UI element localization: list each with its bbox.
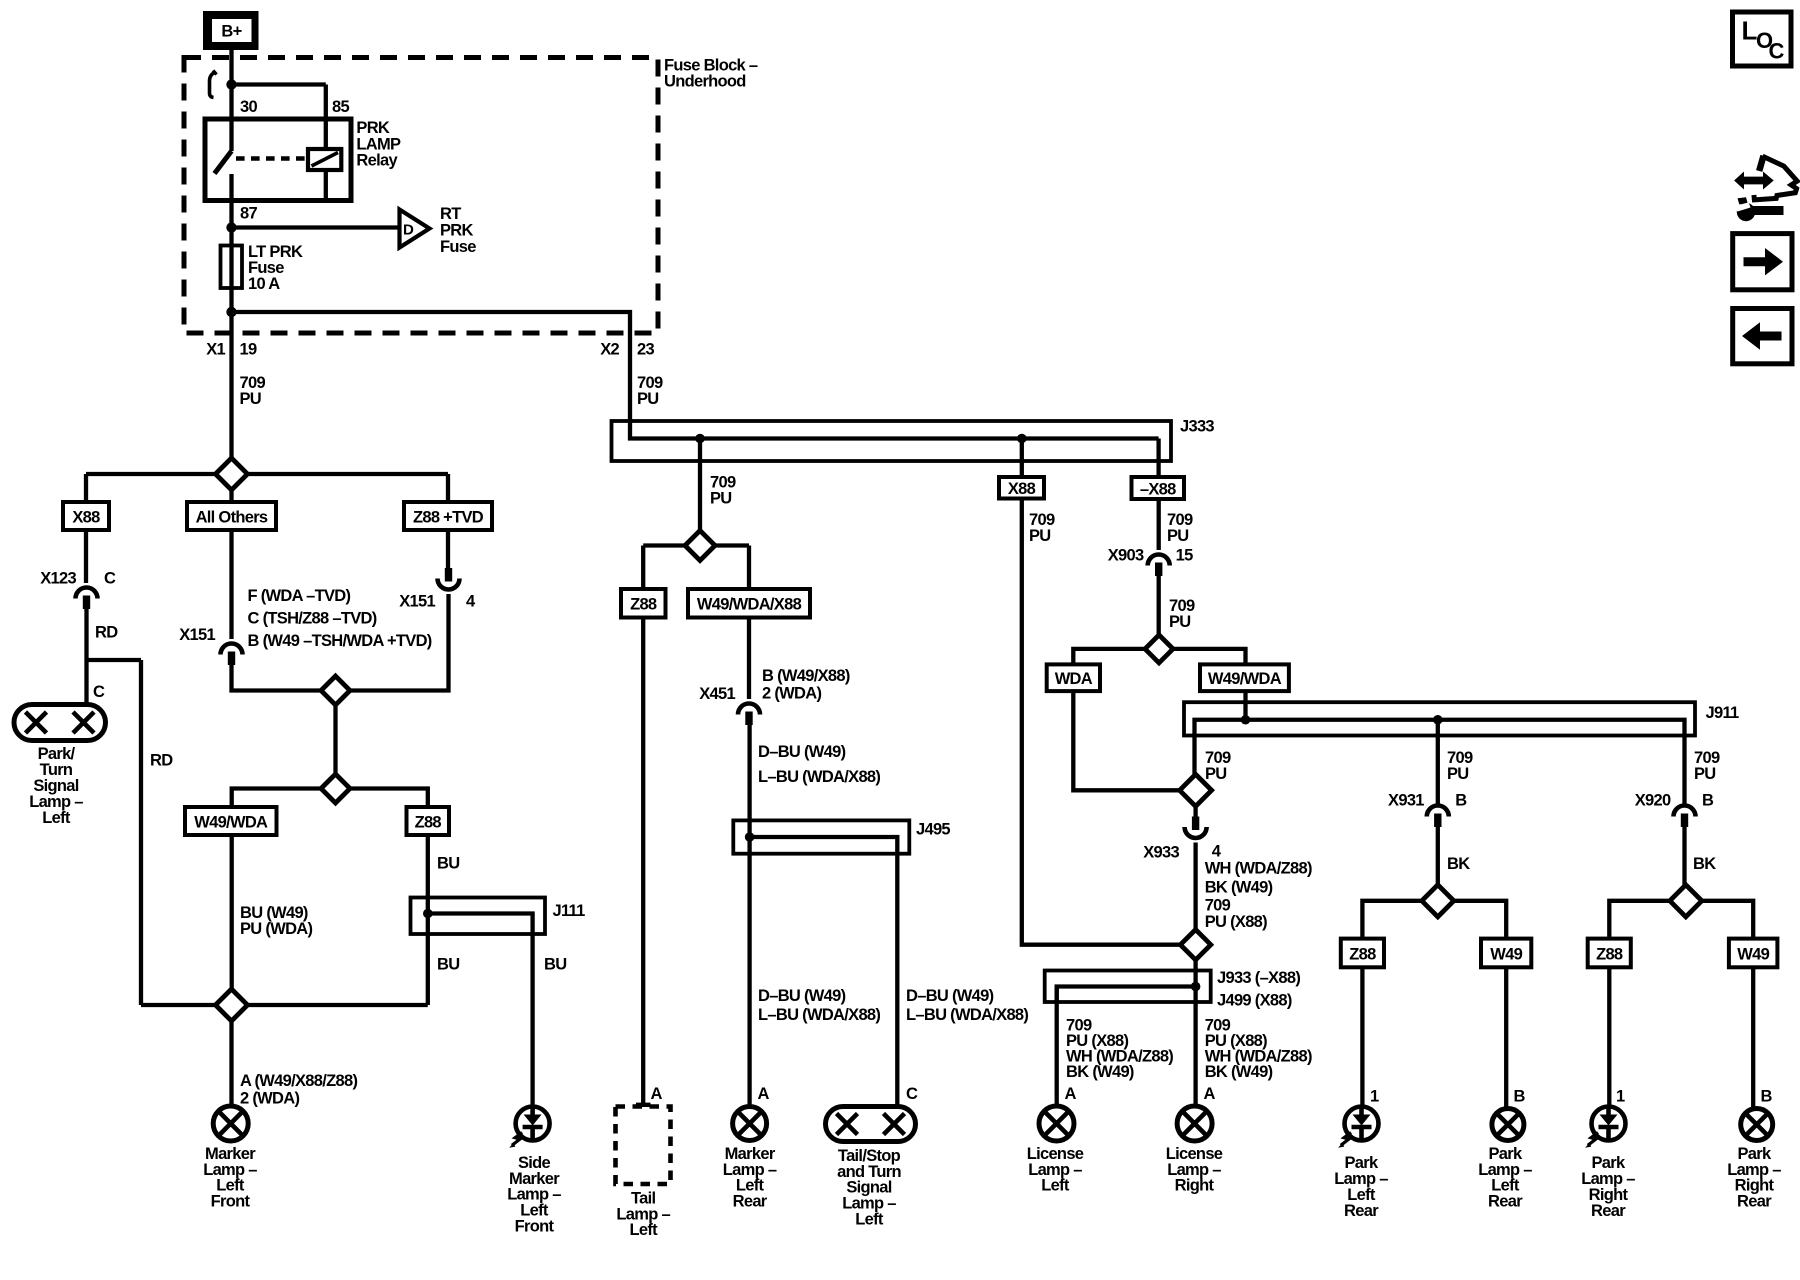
splice J111 — [411, 898, 546, 935]
node diamond junction top left — [216, 458, 248, 490]
icon back arrow box — [1733, 309, 1792, 364]
wire J111 to side marker lamp — [530, 934, 534, 1107]
wire J333 tap2 to X88 box — [1020, 439, 1024, 478]
svg-text:B: B — [1761, 1087, 1773, 1105]
svg-text:A (W49/X88/Z88): A (W49/X88/Z88) — [240, 1072, 357, 1090]
svg-text:A: A — [758, 1085, 770, 1103]
wire diamond6 to W49/WDA box — [1173, 649, 1246, 665]
svg-text:B (W49 –TSH/WDA +TVD): B (W49 –TSH/WDA +TVD) — [248, 632, 432, 650]
svg-text:X903: X903 — [1108, 546, 1144, 564]
svg-text:C: C — [906, 1085, 918, 1103]
svg-text:X451: X451 — [699, 685, 735, 703]
node junction below fuse — [226, 307, 236, 317]
connector X151 right — [445, 568, 452, 582]
node diamond junction 10 — [1670, 885, 1702, 917]
net box W49/WDA/X88 — [688, 589, 810, 618]
connector X151 left — [221, 644, 243, 655]
node diamond junction 9 — [1422, 885, 1454, 917]
wire diamond to All Others — [229, 490, 233, 502]
svg-text:L–BU (WDA/X88): L–BU (WDA/X88) — [758, 1006, 880, 1024]
wire J911 left end to diamond7 — [1192, 736, 1196, 776]
svg-text:PU: PU — [1167, 527, 1189, 545]
connector X920 — [1674, 806, 1696, 817]
svg-text:D–BU (W49): D–BU (W49) — [906, 987, 994, 1005]
icon diagram jump arrow with wrench — [1759, 156, 1763, 171]
lamp Park/Turn Signal Lamp - Left — [14, 705, 106, 741]
relay switch blade — [215, 151, 232, 174]
svg-text:BK: BK — [1693, 855, 1716, 873]
splice J495 — [733, 820, 909, 853]
connector X123 — [76, 588, 98, 599]
net box Z88 rear left — [1341, 939, 1384, 968]
svg-text:BU: BU — [544, 955, 566, 973]
svg-text:C (TSH/Z88 –TVD): C (TSH/Z88 –TVD) — [248, 609, 377, 627]
wire X903 to diamond6 — [1157, 566, 1161, 635]
node J333 tap 1 — [695, 434, 705, 444]
wire diamond9 to W49 rear-left — [1454, 901, 1506, 939]
wire J495 to marker lamp left rear — [747, 837, 751, 1106]
net box W49 rear right — [1729, 939, 1778, 968]
svg-text:1: 1 — [1616, 1087, 1625, 1105]
node diamond junction mid — [685, 531, 715, 561]
svg-text:W49/WDA/X88: W49/WDA/X88 — [697, 596, 802, 614]
svg-text:Z88: Z88 — [1596, 945, 1623, 963]
svg-text:PU: PU — [1447, 765, 1469, 783]
wire J333 tap1 down to diamond — [698, 439, 702, 531]
wire X151 to diamond2 — [232, 655, 321, 691]
node diamond junction 4 — [216, 989, 248, 1021]
svg-text:J333: J333 — [1180, 417, 1214, 435]
svg-text:C: C — [104, 569, 116, 587]
svg-text:10 A: 10 A — [248, 275, 280, 293]
wire diamond6 to WDA box — [1073, 649, 1145, 665]
svg-text:X88: X88 — [1008, 480, 1036, 498]
lamp Tail/Stop and Turn Signal Lamp - Left — [826, 1107, 916, 1142]
svg-text:J933 (–X88): J933 (–X88) — [1217, 969, 1300, 987]
connector X451 — [738, 704, 760, 715]
wire J933 through to license lamp right — [1193, 987, 1197, 1107]
net box W49 rear left — [1481, 939, 1531, 968]
wire W49/WDA down to diamond4 — [230, 835, 234, 989]
svg-text:A: A — [1065, 1085, 1077, 1103]
svg-text:PU: PU — [1205, 765, 1227, 783]
lamp License Lamp - Left — [1039, 1106, 1074, 1141]
wire J911 tap to X931 — [1436, 720, 1440, 806]
node J111 tap — [423, 909, 433, 919]
lamp Tail Lamp - Left (future provision, dashed) — [636, 1103, 651, 1107]
net box X88 left — [63, 502, 109, 530]
connector X933 — [1193, 806, 1197, 818]
svg-text:X88: X88 — [72, 508, 100, 526]
svg-text:BK (W49): BK (W49) — [1205, 1063, 1273, 1081]
wire WDA down around to diamond7 — [1073, 691, 1178, 790]
wire J495 to tail/stop lamp — [895, 854, 899, 1107]
svg-text:W49: W49 — [1490, 945, 1522, 963]
svg-text:PU: PU — [1029, 527, 1051, 545]
svg-text:87: 87 — [240, 204, 257, 222]
node J911 tap W49/WDA — [1241, 715, 1251, 725]
wire diamond3 to W49/WDA box — [232, 789, 321, 808]
wire through LT PRK fuse — [229, 228, 233, 313]
svg-text:X931: X931 — [1388, 791, 1424, 809]
svg-text:PU (X88): PU (X88) — [1205, 913, 1267, 931]
wire Z88+TVD to X151 right — [446, 530, 450, 569]
wire X151 right to diamond2 — [351, 594, 449, 691]
wire X88 to X123 — [84, 530, 88, 583]
svg-text:C: C — [93, 683, 105, 701]
wire All Others to X151 — [229, 530, 233, 639]
svg-text:RT: RT — [440, 205, 461, 223]
wire into lamp pin C — [84, 660, 88, 706]
svg-text:15: 15 — [1176, 546, 1193, 564]
net box W49/WDA left — [185, 807, 277, 835]
svg-text:D–BU (W49): D–BU (W49) — [758, 743, 846, 761]
splice J933 J499 — [1045, 971, 1211, 1003]
wire Z88 to tail lamp — [641, 618, 645, 1105]
svg-text:D–BU (W49): D–BU (W49) — [758, 987, 846, 1005]
svg-text:X1: X1 — [206, 340, 225, 358]
svg-text:L–BU (WDA/X88): L–BU (WDA/X88) — [758, 768, 880, 786]
svg-text:B (W49/X88): B (W49/X88) — [762, 667, 850, 685]
wire Z88 to park lamp left rear led — [1360, 967, 1364, 1107]
net box W49/WDA right — [1200, 664, 1289, 691]
lamp Park Lamp - Right Rear (LED) — [1592, 1107, 1626, 1141]
lamp Park Lamp - Left Rear (LED) — [1345, 1107, 1379, 1141]
svg-text:BU: BU — [437, 854, 459, 872]
svg-text:Fuse: Fuse — [440, 238, 476, 256]
svg-text:RD: RD — [150, 751, 173, 769]
wire diamond4 to marker lamp — [229, 1021, 233, 1106]
svg-text:J495: J495 — [916, 821, 950, 839]
svg-text:F (WDA –TVD): F (WDA –TVD) — [248, 587, 351, 605]
svg-text:Front: Front — [211, 1193, 251, 1211]
wire diamond3 to Z88 box — [350, 789, 428, 808]
wire J911 right end to X920 — [1682, 736, 1686, 807]
svg-text:Left: Left — [1041, 1177, 1070, 1195]
svg-text:1: 1 — [1370, 1087, 1379, 1105]
svg-text:X933: X933 — [1143, 843, 1179, 861]
svg-text:B+: B+ — [221, 22, 241, 40]
net box Z88 +TVD — [404, 502, 492, 530]
wire 87 junction to RT PRK fuse — [226, 222, 236, 232]
svg-text:Rear: Rear — [1591, 1202, 1626, 1220]
svg-text:Rear: Rear — [1344, 1202, 1379, 1220]
wire W49 to park lamp right rear bulb — [1751, 967, 1755, 1108]
connector X903 — [1148, 555, 1170, 566]
fuse symbol D RT PRK Fuse — [400, 210, 430, 248]
wire diamond10 to W49 rear-right — [1702, 901, 1753, 939]
svg-text:PU: PU — [637, 390, 659, 408]
wire diamond bus left — [86, 472, 216, 476]
svg-text:WDA: WDA — [1055, 670, 1093, 688]
relay coil — [308, 149, 341, 170]
svg-text:BK (W49): BK (W49) — [1205, 879, 1273, 897]
node J495 tap — [745, 832, 755, 842]
svg-text:B: B — [1702, 791, 1714, 809]
wire J933 to license lamp left — [1055, 987, 1059, 1107]
node J933 tap — [1191, 982, 1201, 992]
wire diamond to Z88 drop — [643, 543, 685, 547]
wire RD run into diamond4 — [141, 1003, 216, 1007]
svg-text:J499 (X88): J499 (X88) — [1217, 991, 1292, 1009]
wire diamond10 to Z88 rear-right — [1609, 901, 1670, 939]
wire branch to RD run — [87, 658, 142, 662]
net box -X88 — [1132, 477, 1185, 499]
node diamond junction 3 — [321, 774, 350, 803]
svg-text:C: C — [1769, 39, 1785, 64]
svg-text:Right: Right — [1175, 1177, 1215, 1195]
svg-text:PU (WDA): PU (WDA) — [240, 920, 313, 938]
svg-text:L–BU (WDA/X88): L–BU (WDA/X88) — [906, 1006, 1028, 1024]
svg-text:X151: X151 — [179, 626, 215, 644]
relay actuator dashed link — [236, 156, 307, 160]
svg-text:Left: Left — [629, 1221, 658, 1239]
icon LOC legend box — [1733, 12, 1792, 66]
svg-text:Z88: Z88 — [415, 813, 442, 831]
wire W49 to park lamp left rear bulb — [1504, 967, 1508, 1108]
svg-text:30: 30 — [240, 98, 257, 116]
svg-text:A: A — [651, 1085, 663, 1103]
svg-text:A: A — [1204, 1085, 1216, 1103]
wire diamond8 into splice J933/J499 — [1193, 960, 1197, 987]
svg-text:W49: W49 — [1737, 945, 1769, 963]
node J333 tap 2 — [1017, 434, 1027, 444]
svg-text:Left: Left — [42, 809, 71, 827]
svg-text:2 (WDA): 2 (WDA) — [240, 1089, 299, 1107]
svg-text:J111: J111 — [553, 902, 586, 920]
svg-text:23: 23 — [637, 340, 654, 358]
svg-text:Z88 +TVD: Z88 +TVD — [413, 508, 484, 526]
node diamond junction 2 — [321, 676, 350, 705]
svg-text:RD: RD — [95, 623, 118, 641]
lamp Marker Lamp - Left Rear — [733, 1107, 767, 1141]
wire diamond2 to diamond3 — [333, 705, 337, 774]
fuse F1 LT PRK Fuse 10 A — [221, 246, 243, 289]
lamp Marker Lamp - Left Front — [213, 1106, 248, 1141]
node diamond junction 6 — [1145, 635, 1173, 663]
svg-text:BK (W49): BK (W49) — [1066, 1063, 1134, 1081]
svg-text:PRK: PRK — [440, 222, 474, 240]
net box X88 right — [999, 477, 1044, 499]
svg-text:85: 85 — [332, 98, 349, 116]
wire Z88 to park lamp right rear led — [1607, 967, 1611, 1107]
wire X451 to splice J495 — [747, 715, 751, 838]
wire X931 to diamond9 — [1436, 817, 1440, 885]
svg-text:2 (WDA): 2 (WDA) — [762, 685, 821, 703]
wire W49/WDA/X88 to X451 — [747, 618, 751, 700]
wire X88 long run to diamond8 — [1022, 499, 1180, 945]
lamp Park Lamp - Right Rear — [1741, 1109, 1773, 1141]
svg-text:X2: X2 — [600, 340, 619, 358]
wire B+ to relay pin 30 — [229, 49, 233, 151]
wire -X88 to X903 — [1157, 499, 1161, 550]
wire diamond to W49/WDA/X88 drop — [715, 543, 749, 547]
svg-text:Relay: Relay — [356, 151, 398, 169]
wire X920 to diamond10 — [1682, 817, 1686, 885]
svg-text:Underhood: Underhood — [664, 72, 746, 90]
relay U1 PRK LAMP Relay box — [205, 119, 351, 201]
svg-text:PU: PU — [1694, 765, 1716, 783]
node diamond junction 7 — [1180, 774, 1212, 806]
svg-text:Rear: Rear — [733, 1193, 768, 1211]
wire diamond9 to Z88 rear-left — [1362, 901, 1422, 939]
svg-text:PU: PU — [1169, 613, 1191, 631]
svg-text:W49/WDA: W49/WDA — [194, 813, 268, 831]
svg-text:PU: PU — [710, 489, 732, 507]
svg-text:19: 19 — [240, 340, 257, 358]
splice J911 — [1184, 702, 1695, 735]
svg-text:PU: PU — [240, 390, 262, 408]
node junction at B+ branch — [226, 79, 236, 89]
svg-text:W49/WDA: W49/WDA — [1208, 670, 1282, 688]
power terminal B+ — [203, 11, 259, 50]
svg-text:X920: X920 — [1635, 791, 1671, 809]
net box Z88 rear right — [1588, 939, 1631, 968]
svg-text:B: B — [1455, 791, 1467, 809]
wire relay 87 down to junction — [229, 174, 233, 228]
wire BU run into diamond4 — [248, 1003, 428, 1007]
wire J333 right end to -X88 box — [1156, 439, 1160, 478]
wire Z88 through J111 — [426, 835, 430, 1005]
wire junction to X2 drop — [232, 312, 631, 437]
svg-text:Rear: Rear — [1737, 1193, 1772, 1211]
net box WDA — [1047, 664, 1100, 691]
svg-text:–X88: –X88 — [1140, 480, 1176, 498]
svg-text:X151: X151 — [399, 592, 435, 610]
wire X123 to park/turn lamp — [84, 598, 88, 660]
connector X931 — [1427, 806, 1449, 817]
svg-text:Z88: Z88 — [1349, 945, 1376, 963]
svg-text:BU: BU — [437, 955, 459, 973]
svg-text:PRK: PRK — [356, 119, 390, 137]
svg-text:WH (WDA/Z88): WH (WDA/Z88) — [1205, 860, 1312, 878]
wire diamond bus right — [248, 472, 449, 476]
svg-text:Rear: Rear — [1488, 1193, 1523, 1211]
lamp Side Marker Lamp - Left Front — [516, 1107, 550, 1141]
svg-text:D: D — [403, 221, 414, 238]
svg-text:X123: X123 — [40, 569, 76, 587]
connector stub hook — [210, 72, 216, 98]
svg-text:BK: BK — [1447, 855, 1470, 873]
fuse block underhood outline — [184, 58, 658, 334]
node diamond junction 8 — [1180, 930, 1210, 960]
svg-text:J911: J911 — [1706, 704, 1740, 722]
net box Z88 left — [407, 807, 450, 835]
splice J333 — [612, 421, 1172, 461]
lamp Park Lamp - Left Rear — [1492, 1109, 1524, 1141]
svg-text:Z88: Z88 — [630, 596, 657, 614]
net box All Others — [187, 502, 276, 530]
svg-text:709: 709 — [1205, 897, 1231, 915]
svg-text:B: B — [1514, 1087, 1526, 1105]
svg-text:Front: Front — [515, 1218, 555, 1236]
svg-text:All Others: All Others — [196, 508, 268, 526]
wire X933 to diamond8 — [1193, 843, 1197, 930]
wire relay 30 branch to coil 85 — [232, 82, 326, 86]
net box Z88 mid — [621, 589, 666, 618]
svg-text:Left: Left — [855, 1211, 884, 1229]
node J911 tap X931 — [1433, 715, 1443, 725]
wire W49/WDA into splice J911 — [1243, 691, 1247, 720]
wire X1 drop to diamond — [229, 312, 233, 460]
icon forward arrow box — [1733, 234, 1792, 290]
lamp License Lamp - Right — [1177, 1106, 1212, 1141]
